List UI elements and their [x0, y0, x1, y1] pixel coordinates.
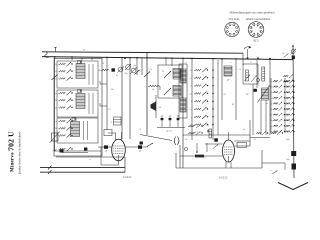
- junction dot on bus: [171, 57, 173, 59]
- band switch contact with resistor: [55, 77, 73, 81]
- junction dot at coil top: [74, 118, 75, 119]
- wire top bus A: [42, 52, 243, 53]
- wire bus drop tick: [91, 58, 93, 60]
- wire vertical x253: [252, 84, 254, 135]
- svg-text:2n: 2n: [271, 120, 273, 122]
- IF transformer box: [158, 65, 182, 98]
- junction dot on bus: [182, 57, 184, 59]
- junction dot left rail bottom: [54, 150, 56, 152]
- wire right rail x293-294: [293, 45, 294, 178]
- coil L (hatched): [76, 94, 85, 109]
- coil hatched at x225: [224, 66, 232, 76]
- wire V2 right leads: [235, 140, 251, 142]
- svg-text:14/211: 14/211: [219, 176, 228, 180]
- contact row lower right 2: [271, 131, 283, 135]
- wire vertical x266: [265, 100, 267, 135]
- bank B switch contact row: [271, 102, 295, 106]
- bank A switch contact row: [190, 123, 208, 127]
- wire chassis line y151: [55, 150, 102, 152]
- pickup jack circle at rail top: [292, 45, 294, 47]
- tuning indicator triangle: [151, 102, 157, 112]
- capacitor blob left of inductor: [254, 89, 257, 92]
- arrow a at x287: [284, 54, 289, 58]
- capacitor blob at x216 y140: [214, 138, 218, 141]
- wire osc link: [165, 59, 167, 65]
- wire V2 top lead: [228, 132, 230, 140]
- wire coil tail: [88, 64, 90, 85]
- trimmer box above coil: [78, 61, 82, 64]
- band switch contact with resistor: [55, 134, 73, 138]
- svg-text:n: n: [63, 156, 64, 158]
- wire vertical x222: [221, 59, 223, 120]
- electrode stub with dot: [196, 143, 198, 152]
- electrolytic capacitor blob y152: [291, 151, 296, 156]
- svg-text:2M: 2M: [246, 94, 249, 96]
- wire V1 top leads: [115, 133, 117, 141]
- antenna coil upper hatched: [180, 69, 186, 83]
- svg-text:2n: 2n: [55, 78, 57, 80]
- svg-text:1n: 1n: [55, 107, 57, 109]
- wire vertical x107: [106, 57, 108, 130]
- band switch contact with resistor: [54, 91, 73, 95]
- capacitor C at x162: [161, 115, 163, 127]
- fuse Si at bus left end: [45, 52, 49, 57]
- crystal box with hatch: [114, 117, 122, 125]
- svg-text:1M: 1M: [111, 89, 114, 91]
- variable cap arrow in tone box 2: [251, 76, 257, 83]
- wire bus drop tick: [81, 58, 83, 61]
- wire vertical x250 down: [249, 120, 251, 146]
- svg-text:k: k: [231, 62, 232, 64]
- bank B switch contact row: [270, 80, 295, 84]
- wire V1 cathode down: [118, 161, 120, 165]
- loudspeaker chevron: [278, 183, 308, 190]
- bank A switch contact row: [190, 68, 208, 72]
- svg-text:AZ 1: AZ 1: [253, 39, 259, 43]
- wire vertical x261: [260, 100, 262, 135]
- junction dot on bus: [54, 56, 56, 58]
- tone control box: [243, 64, 258, 84]
- wire slant from tube1 to coupling: [140, 135, 172, 141]
- band switch contact with resistor: [55, 98, 73, 102]
- bank B switch contact row: [271, 119, 295, 123]
- trimmer arrow to IF coil upper: [164, 71, 171, 78]
- resistor hatched x263: [262, 67, 265, 81]
- coil group frame: [57, 90, 98, 117]
- junction dot at coil top: [80, 61, 81, 62]
- wire bank B rail mid: [284, 78, 286, 133]
- wire bottom rail upper: [40, 167, 125, 169]
- coil pack box outline: [54, 59, 102, 157]
- capacitor blob on slant wire: [140, 142, 143, 145]
- junction dot on bus: [212, 58, 214, 60]
- svg-text:(Röhrenfassungen von unten ges: (Röhrenfassungen von unten gesehen): [230, 11, 275, 15]
- svg-text:2n: 2n: [116, 75, 118, 77]
- capacitor blob on chassis line: [60, 149, 64, 152]
- trimmer capacitor T1: [117, 66, 123, 72]
- bank B switch contact row: [271, 108, 295, 112]
- variable inductor hatched with arrow: [262, 88, 269, 100]
- svg-text:0,1: 0,1: [270, 115, 273, 117]
- wire enclosure bottom y168: [176, 167, 262, 169]
- wire coil tail: [88, 93, 90, 114]
- resistor vertical left of V2: [207, 130, 209, 132]
- svg-text:1n: 1n: [271, 92, 273, 94]
- junction dot on bus: [71, 56, 73, 58]
- bank A switch contact row: [190, 107, 208, 111]
- switch S1 break in bottom rails: [48, 166, 52, 170]
- switch arrow left of electrolytic: [272, 171, 278, 175]
- coil L (hatched): [76, 64, 85, 79]
- small circle symbol y149: [184, 147, 187, 150]
- electrode stub with zigzag: [206, 143, 208, 152]
- wire y135 tie: [183, 134, 250, 136]
- wire corner bus A end: [242, 53, 244, 65]
- wire bank A rail left: [191, 58, 193, 140]
- trimmer capacitor C1 on left rail: [52, 133, 59, 141]
- wire left rail x55: [54, 57, 56, 151]
- bank A switch contact row: [190, 99, 208, 103]
- trimmer arrow to IF coil lower: [164, 88, 171, 95]
- contact rows y76 y81 between 283-295: [283, 75, 288, 77]
- junction dot on bus: [121, 57, 123, 59]
- junction dots on bus B right: [247, 57, 249, 59]
- svg-text:a-w: a-w: [189, 93, 193, 95]
- small circle at x258 y80: [257, 79, 260, 82]
- wire vertical x142: [141, 58, 143, 75]
- capacitor blob at rail y57: [292, 56, 295, 60]
- bank B switch contact row: [271, 96, 294, 100]
- wire vertical x236: [235, 59, 237, 120]
- wire stub above bus at x55: [55, 47, 57, 52]
- potentiometer arrow above bus: [244, 47, 251, 49]
- junction dot on bus: [146, 57, 148, 59]
- junction dot on bus: [165, 57, 167, 59]
- bank B switch contact row: [271, 130, 295, 134]
- wire bottom rail lower: [40, 171, 125, 173]
- variable capacitor arrow on left rail: [52, 75, 58, 81]
- junction dot at coil top: [80, 90, 81, 91]
- svg-text:5k: 5k: [271, 87, 273, 89]
- wire enclosure corner right: [262, 162, 285, 164]
- band switch contact with resistor: [55, 126, 73, 130]
- wire vertical joining rails to chassis box: [124, 157, 126, 172]
- coil group frame: [57, 61, 98, 88]
- bank B switch contact row: [271, 85, 295, 89]
- coupling capacitor blob right of V1: [138, 145, 142, 148]
- screen bypass box left of V1 top: [104, 130, 112, 136]
- capacitor blob in coil box bottom: [84, 148, 87, 151]
- svg-text:2k: 2k: [185, 139, 187, 141]
- wire vertical x183: [182, 58, 184, 168]
- IF coil upper (hatched): [173, 69, 181, 80]
- svg-text:50: 50: [271, 109, 273, 111]
- wire vertical x270: [269, 59, 271, 135]
- bank A switch contact row: [190, 84, 208, 88]
- dark resistor on grid return: [195, 155, 204, 158]
- svg-text:5k: 5k: [152, 89, 154, 91]
- junction dot on bus: [106, 57, 108, 59]
- wire coil tail: [83, 121, 85, 140]
- svg-text:2n: 2n: [190, 86, 192, 88]
- wire tie y135 right: [250, 137, 270, 139]
- svg-text:1M: 1M: [98, 70, 101, 72]
- band switch contact with resistor: [55, 62, 73, 66]
- svg-text:1n: 1n: [190, 109, 192, 111]
- wire vertical x180 down: [179, 145, 181, 168]
- trimmer box above coil: [72, 118, 76, 121]
- electrolytic capacitor blob y164: [292, 164, 297, 170]
- capacitor blob at x113: [112, 68, 115, 71]
- wire V2 left grid: [205, 143, 223, 145]
- switch arrow on slant wire: [147, 143, 153, 147]
- contact row above V2 left second: [188, 132, 203, 136]
- svg-text:Allstrom-Verbundröhre: Allstrom-Verbundröhre: [246, 18, 271, 21]
- variable capacitor arrow x137: [135, 70, 140, 75]
- band switch contact with resistor: [55, 106, 73, 110]
- bank B switch contact row: [270, 124, 295, 128]
- wire jog x158-160: [158, 85, 160, 87]
- wire top bus B: [42, 57, 293, 60]
- coupling capacitor blob left of V1: [104, 145, 108, 148]
- contact stubs left of x107: [100, 83, 107, 85]
- wire bank B rail left: [270, 78, 272, 133]
- svg-text:5k: 5k: [190, 101, 192, 103]
- resistor vertical x247: [246, 70, 249, 81]
- title Minerva 702 U (rotated left margin): [7, 131, 22, 174]
- wire grid line y147 left: [98, 146, 112, 148]
- capacitor C at x178: [177, 115, 179, 127]
- wire vertical x172: [171, 58, 173, 66]
- capacitor C at x170: [169, 115, 171, 127]
- coupling coil arcs: [174, 137, 179, 146]
- tube socket diagram left: [225, 22, 239, 36]
- svg-text:14/211: 14/211: [123, 175, 132, 179]
- antenna coil lower hatched: [180, 98, 186, 112]
- svg-text:a-w: a-w: [54, 93, 58, 95]
- trimmer box above coil: [78, 90, 82, 93]
- junction dot on bus: [136, 57, 138, 59]
- coil L (hatched): [71, 122, 80, 137]
- variable cap arrow in tone box 1: [245, 75, 251, 82]
- wire bank A rail right: [212, 59, 214, 140]
- bank A switch contact row: [189, 92, 208, 96]
- coil group frame: [57, 118, 98, 143]
- wire grid line y147 right: [125, 146, 148, 148]
- svg-text:5n: 5n: [243, 129, 245, 131]
- band switch contact with resistor: [56, 119, 73, 123]
- bank B switch contact row: [270, 113, 295, 117]
- trimmer capacitor T3: [130, 67, 136, 73]
- variable capacitor arrow on x147: [144, 72, 150, 78]
- bank A switch contact row: [191, 115, 208, 119]
- trimmer capacitor T2: [125, 64, 131, 70]
- wire chassis line y157: [56, 156, 125, 158]
- svg-text:(linke Seite des Schaltbildes): (linke Seite des Schaltbildes): [18, 132, 22, 174]
- wire vertical x137: [136, 58, 138, 75]
- wire vertical x257: [256, 60, 258, 88]
- bank B switch contact row: [271, 91, 295, 95]
- junction dot on bus: [129, 57, 131, 59]
- svg-text:5k: 5k: [55, 100, 57, 102]
- wire grid return y156: [180, 155, 223, 157]
- svg-text:Dr: Dr: [266, 103, 268, 105]
- arrow at x216 y146: [213, 145, 218, 149]
- junction dot on bus at x125: [124, 57, 126, 59]
- junction dot on bus: [191, 58, 193, 60]
- wire strong vertical x147: [146, 53, 148, 135]
- svg-text:30: 30: [271, 103, 273, 105]
- junction dot on bus: [235, 58, 237, 60]
- wire vertical x130: [129, 58, 131, 139]
- wire V2 bottom pins: [225, 162, 227, 168]
- wire bus drop tick: [71, 58, 73, 61]
- tube V1 (UCH) envelope: [112, 139, 126, 161]
- IF coil lower (hatched): [173, 86, 181, 97]
- antenna coil box (bank A left): [179, 64, 187, 118]
- wire vertical x122: [121, 58, 123, 139]
- contact row above V2 left: [188, 125, 203, 129]
- bottom contact row in coil box: [56, 147, 73, 151]
- tube socket diagram right: [248, 22, 264, 38]
- band switch contact with resistor: [54, 69, 72, 73]
- wire vertical x218: [217, 60, 219, 135]
- svg-text:µF 0,1: µF 0,1: [166, 131, 173, 133]
- junction dot on bus: [221, 58, 223, 60]
- tube V2 (UCL) envelope: [223, 140, 235, 162]
- component box right of V2: [237, 143, 247, 148]
- wire coil box bottom ties: [62, 152, 88, 154]
- svg-text:UCL 11/21: UCL 11/21: [228, 18, 240, 21]
- contact row lower right 1: [256, 131, 268, 135]
- bank A switch contact row: [190, 76, 208, 80]
- resistor horizontal at y86: [148, 85, 158, 87]
- wire tie y128: [157, 127, 185, 129]
